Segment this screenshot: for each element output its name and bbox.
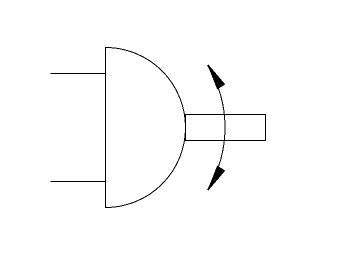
arrowhead top bbox=[208, 65, 225, 89]
shaft rectangle bbox=[186, 115, 266, 141]
actuator body (D shape: flat side + semicircle) bbox=[106, 48, 186, 208]
rotation arc bbox=[208, 65, 225, 189]
wire port bottom bbox=[51, 181, 106, 183]
wire port top bbox=[51, 73, 106, 75]
arrowhead bottom bbox=[208, 166, 225, 190]
